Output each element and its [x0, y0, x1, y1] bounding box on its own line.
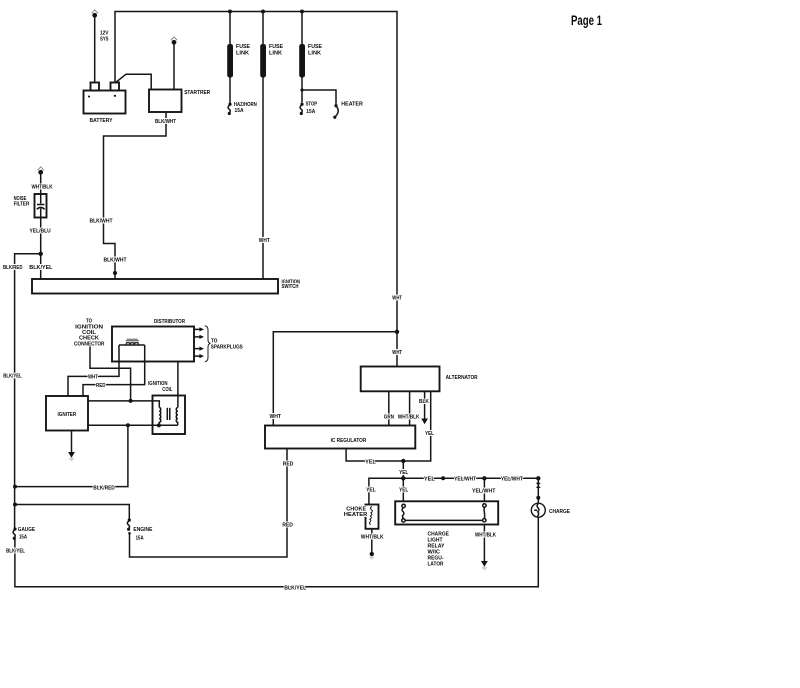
svg-text:RED: RED [96, 383, 106, 389]
svg-text:FUSE: FUSE [236, 44, 250, 50]
svg-text:YEL: YEL [425, 431, 435, 437]
svg-text:WHT: WHT [270, 414, 282, 420]
svg-text:WHT: WHT [392, 350, 402, 356]
svg-text:LINK: LINK [308, 51, 321, 57]
svg-text:15A: 15A [19, 535, 27, 541]
svg-text:SWITCH: SWITCH [282, 284, 299, 290]
svg-text:BLK/WHT: BLK/WHT [155, 119, 177, 125]
svg-text:WHT: WHT [88, 375, 99, 381]
svg-text:FUSE: FUSE [269, 44, 283, 50]
svg-text:BLK/YEL: BLK/YEL [284, 586, 307, 592]
svg-text:WHT: WHT [259, 238, 271, 244]
svg-text:LATOR: LATOR [428, 562, 444, 568]
svg-text:SPARKPLUGS: SPARKPLUGS [211, 344, 243, 350]
svg-text:BLK: BLK [419, 399, 429, 405]
svg-text:CONNECTOR: CONNECTOR [74, 341, 105, 347]
svg-text:IGNITER: IGNITER [58, 412, 77, 418]
svg-text:RED: RED [283, 461, 294, 467]
svg-text:YEL/WHT: YEL/WHT [454, 476, 477, 482]
svg-text:YEL: YEL [366, 488, 376, 494]
svg-text:15A: 15A [306, 109, 315, 115]
svg-text:BATTERY: BATTERY [90, 118, 113, 124]
svg-text:HEATER: HEATER [341, 102, 363, 108]
svg-text:YEL: YEL [399, 488, 409, 494]
svg-text:ENGINE: ENGINE [133, 527, 152, 533]
svg-text:YEL: YEL [365, 460, 376, 466]
svg-text:LINK: LINK [269, 51, 282, 57]
svg-text:RED: RED [282, 522, 293, 528]
svg-text:STARTRER: STARTRER [184, 90, 210, 96]
svg-text:FILTER: FILTER [14, 202, 30, 208]
svg-text:WHT/BLK: WHT/BLK [32, 184, 53, 190]
svg-text:SYS: SYS [100, 37, 109, 43]
svg-text:LINK: LINK [236, 51, 249, 57]
svg-text:HEATER: HEATER [344, 512, 368, 518]
svg-text:WHT/BLK: WHT/BLK [475, 533, 496, 539]
svg-text:BLK/RED: BLK/RED [3, 265, 23, 271]
svg-text:FUSE: FUSE [308, 44, 322, 50]
svg-text:WHT/BLK: WHT/BLK [398, 414, 420, 420]
svg-text:WHT/BLK: WHT/BLK [361, 535, 384, 541]
svg-text:BLK/WHT: BLK/WHT [104, 258, 128, 264]
svg-text:GAUGE: GAUGE [18, 527, 35, 533]
svg-text:BLK/YEL: BLK/YEL [3, 373, 22, 379]
svg-text:IGNITION: IGNITION [148, 381, 167, 387]
svg-text:BLK/RED: BLK/RED [93, 486, 115, 492]
svg-text:YEL/WHT: YEL/WHT [501, 476, 524, 482]
svg-text:WHT: WHT [392, 295, 402, 301]
svg-text:STOP: STOP [306, 102, 318, 108]
svg-text:BLK/WHT: BLK/WHT [90, 218, 114, 224]
svg-text:YEL: YEL [424, 476, 436, 482]
svg-text:YEL: YEL [399, 470, 409, 476]
svg-text:BLK/YEL: BLK/YEL [6, 549, 25, 555]
svg-text:CHARGE: CHARGE [549, 509, 570, 515]
svg-text:15A: 15A [136, 535, 144, 541]
svg-text:BLK/YEL: BLK/YEL [29, 265, 53, 271]
svg-text:YEL/BLU: YEL/BLU [30, 228, 51, 234]
svg-text:15A: 15A [235, 108, 244, 114]
svg-text:DISTRIBUTOR: DISTRIBUTOR [154, 319, 185, 325]
svg-text:YEL/WHT: YEL/WHT [472, 488, 496, 494]
svg-text:IC REGULATOR: IC REGULATOR [331, 438, 367, 444]
svg-text:COIL: COIL [162, 387, 172, 393]
svg-text:ALTERNATOR: ALTERNATOR [446, 375, 478, 381]
svg-text:Page 1: Page 1 [571, 13, 602, 28]
svg-text:GRN: GRN [384, 414, 394, 420]
